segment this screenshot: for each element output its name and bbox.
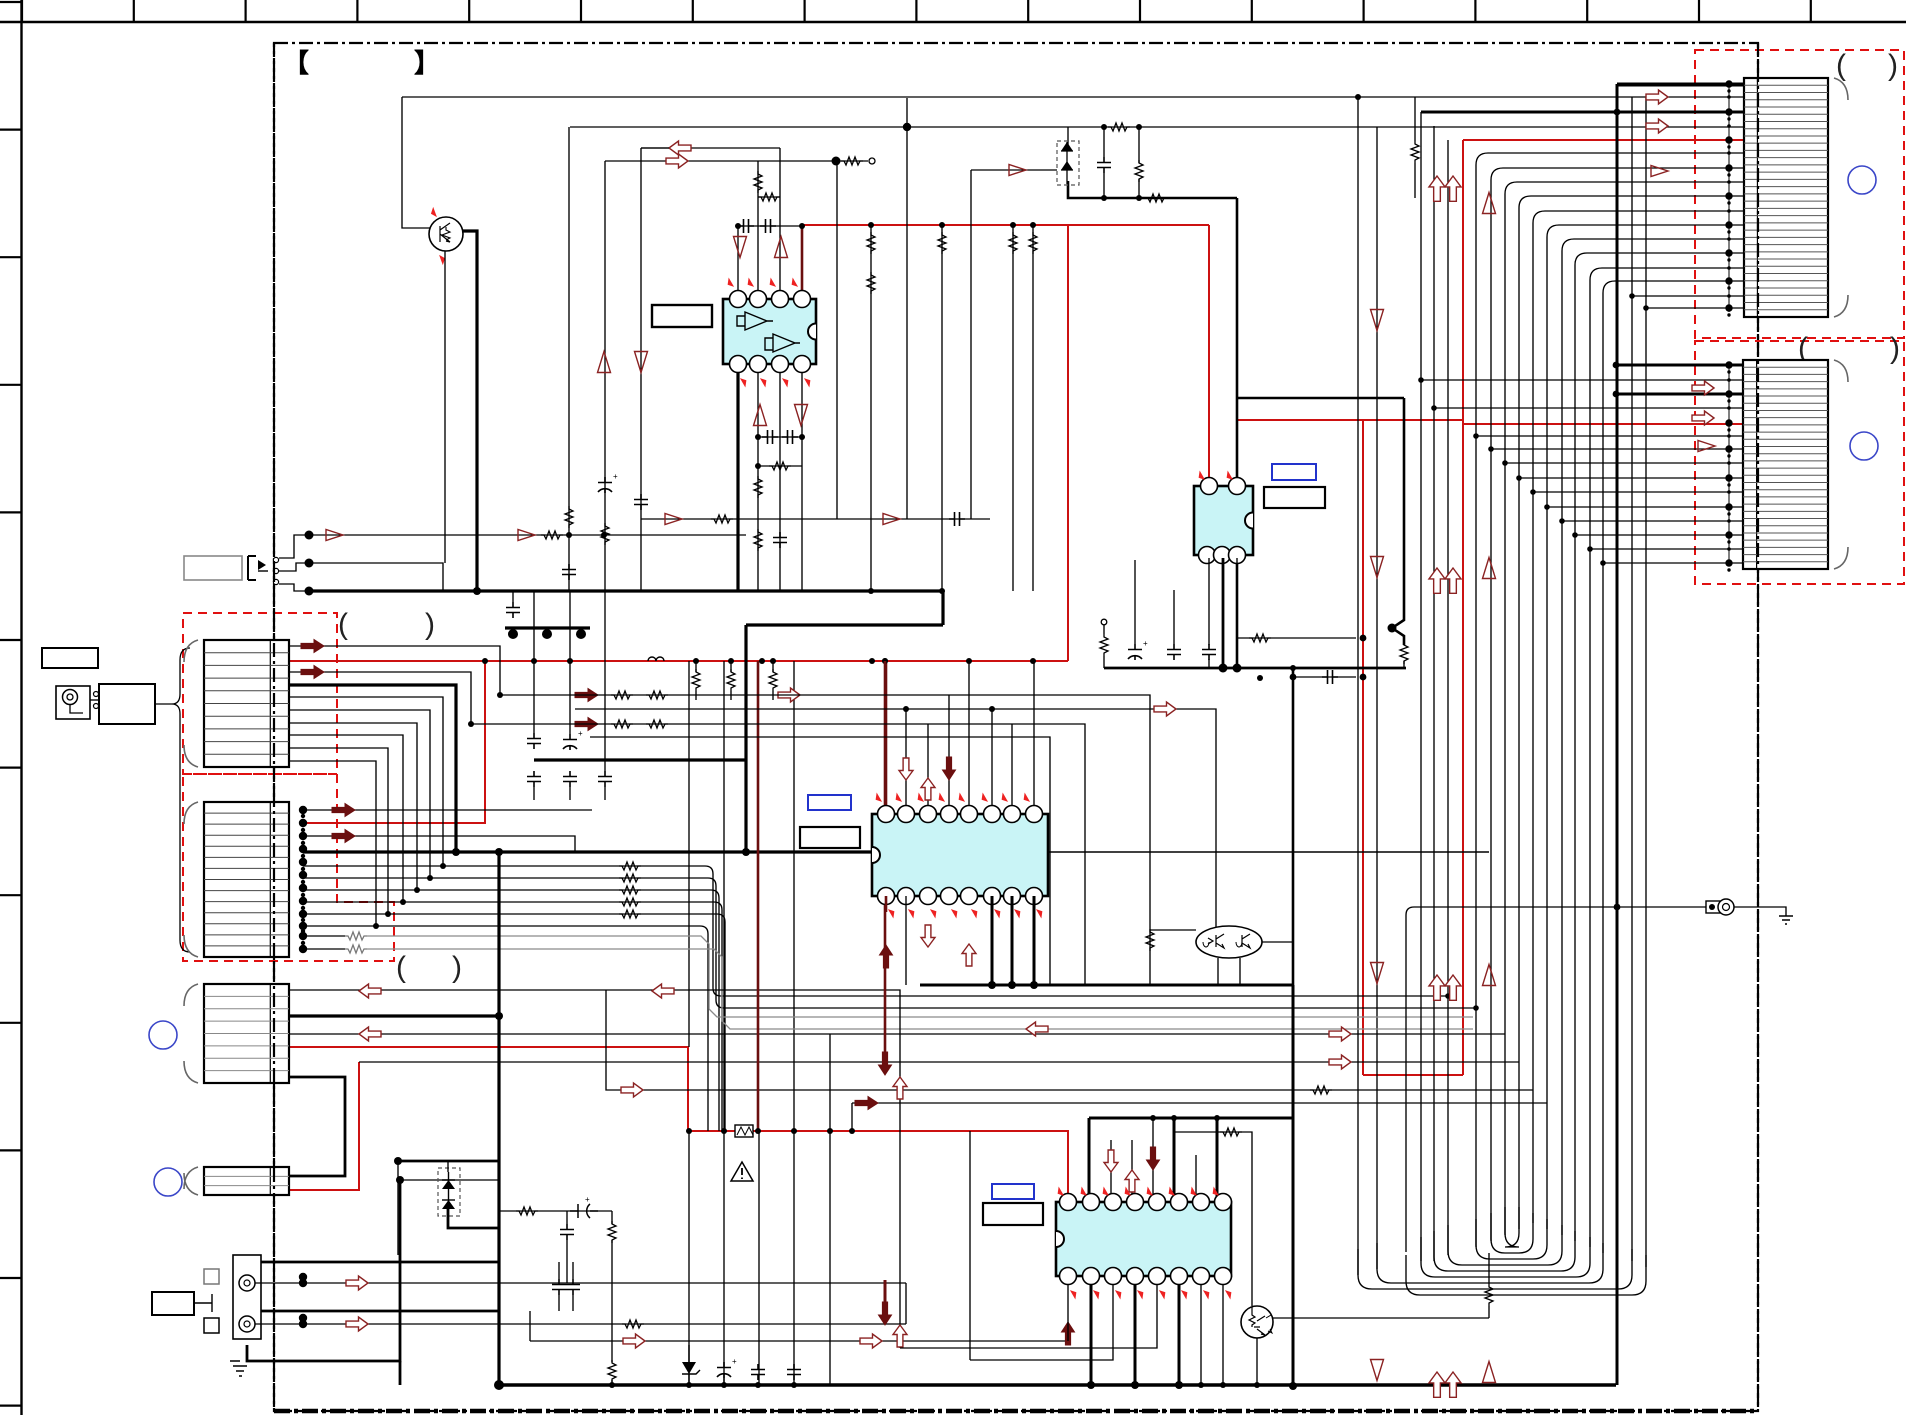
capacitor C25 <box>1322 670 1338 684</box>
resistor R1 <box>841 157 863 165</box>
resistor R9 <box>754 476 762 498</box>
ground GND1 <box>230 1345 247 1376</box>
wire net IC1 pin7 down <box>779 367 781 591</box>
resistor R34 <box>1310 1086 1332 1094</box>
wire net comb A row296 <box>1632 295 1744 297</box>
junction J85 <box>495 1012 503 1020</box>
wire net comb B row380 <box>1421 379 1744 381</box>
resistor R10 <box>754 529 762 551</box>
wire net caps y437 <box>758 436 802 438</box>
signal arrow A63 (triangle) <box>1009 165 1026 176</box>
fuse F1 <box>735 1125 753 1137</box>
label box IC4 <box>983 1203 1043 1225</box>
wire net IC3 p7 up <box>1011 724 1013 806</box>
wire net cap stub <box>1173 590 1175 644</box>
junction J150 <box>1727 406 1731 410</box>
signal arrow A60 (triangle) <box>1483 558 1496 579</box>
pin mark <box>1145 1188 1154 1196</box>
open terminal <box>869 158 875 164</box>
wire net x724 tail <box>723 1378 725 1385</box>
resistor R42 <box>1411 141 1419 163</box>
svg-text:+: + <box>613 472 618 481</box>
junction J158 <box>1727 483 1730 486</box>
wire net Q3 col stub <box>1488 1306 1490 1318</box>
junction J83 <box>609 1382 615 1388</box>
junction J23 <box>939 588 945 594</box>
signal arrow A7 (triangle) <box>598 352 611 373</box>
wire net RCA1 sig <box>255 1282 906 1284</box>
pin mark <box>887 909 896 917</box>
junction J161 <box>1727 512 1730 515</box>
junction J184 <box>1030 981 1038 989</box>
capacitor C13 (polarized) <box>563 734 577 750</box>
wire net x612 drop2 <box>611 1240 613 1362</box>
wire bus U-turn x1377-x1603 <box>1377 1243 1603 1283</box>
junction J36 <box>497 692 503 698</box>
wire net comb B row563 <box>1603 562 1744 564</box>
wire net y127 long <box>570 126 1744 128</box>
wire net bus row y878 <box>303 877 430 879</box>
wire net res x696 tail <box>695 691 697 700</box>
wire net x1013 col <box>1012 225 1014 591</box>
resistor R24 <box>611 720 633 728</box>
wire net IC1 pin8 down <box>801 367 803 591</box>
svg-text:): ) <box>1890 332 1900 365</box>
signal arrow A61 (triangle) <box>1483 965 1496 986</box>
junction (big) <box>832 157 841 166</box>
zener diode ZD1 <box>682 1345 700 1386</box>
wire net term drop <box>1103 625 1105 634</box>
wire net shield wire B <box>303 948 345 950</box>
signal arrow A68 <box>921 925 935 947</box>
signal arrow A62 (triangle) <box>1483 1362 1496 1383</box>
junction J89 <box>827 1128 833 1134</box>
junction J20 <box>1010 222 1016 228</box>
wire net x971 col <box>970 170 972 519</box>
junction J51 <box>299 845 307 853</box>
wire net term bus (thick) <box>1104 667 1406 670</box>
wire net res x696 stub <box>695 661 697 672</box>
wire net res y197 link <box>758 196 780 198</box>
junction J110 <box>1643 305 1649 311</box>
capacitor C18 <box>552 1279 566 1295</box>
wire net comb4 red link <box>289 1062 359 1190</box>
signal arrow A15 (solid) <box>301 666 324 679</box>
wire net c573 stub <box>572 1262 574 1279</box>
wire net IC4 pin8 riser (thick) <box>1216 1118 1219 1202</box>
wire net IC3 b7 dn (thick) <box>1011 896 1014 985</box>
capacitor C15 <box>563 771 577 787</box>
capacitor C19 <box>566 1279 580 1295</box>
wire net y161 res tail <box>836 160 868 162</box>
pin mark <box>957 794 966 802</box>
wire net x1404 tail <box>1403 661 1405 668</box>
wire net center col a <box>829 1034 831 1385</box>
capacitor (polarized) <box>570 1204 598 1218</box>
wire net y520 wire <box>641 518 990 520</box>
signal arrow A38 <box>1125 1170 1139 1192</box>
ring terminal <box>1706 899 1734 915</box>
junction J47 <box>1473 1005 1479 1011</box>
wire net y695 long <box>498 695 1150 896</box>
wire net comb B row y365 (thick) <box>1616 364 1744 367</box>
junction J108 <box>1614 109 1621 116</box>
wire net res x773 stub <box>772 661 774 672</box>
resistor R35 <box>622 1320 644 1328</box>
signal arrow A6 (triangle) <box>795 405 808 426</box>
signal arrow A52 <box>1445 975 1461 1000</box>
wire net Q2 top bus (thick) <box>1218 984 1293 987</box>
signal arrow A8 (triangle) <box>635 352 648 373</box>
wire net IC4 pin4 riser <box>1131 1140 1133 1202</box>
pin dot chain CN-A <box>1728 84 1730 312</box>
pin mark <box>1056 1188 1065 1196</box>
junction J169 <box>1488 446 1494 452</box>
wire net IC3 b8 dn (thick) <box>1033 896 1036 985</box>
signal arrow A19 (triangle) <box>518 530 535 541</box>
connector CN1 (10p) <box>184 640 289 767</box>
signal arrow A42 <box>1646 119 1668 133</box>
junction J154 <box>1725 445 1732 452</box>
wire net y1211 wire <box>499 1210 612 1212</box>
wire net opt y563 <box>309 563 443 591</box>
junction J90 <box>686 1128 692 1134</box>
wire net x534 low <box>533 787 535 800</box>
wire net res x731 stub <box>730 661 732 672</box>
resistor R6 <box>754 171 762 193</box>
signal arrow A9 (triangle) <box>665 514 682 525</box>
resistor R5 <box>1135 160 1143 182</box>
wire net x970 seg <box>969 1131 971 1360</box>
wire net IC4 pin b1 <box>1067 1276 1069 1341</box>
signal arrow A26 <box>621 1083 643 1097</box>
wire net red riser x1463 <box>1462 140 1464 1075</box>
resistor R13 <box>711 515 733 523</box>
pin mark <box>970 909 979 917</box>
shield box CN1 (red dashed) <box>183 613 337 774</box>
wire net Q1 emitter down <box>444 251 446 563</box>
wire net IC1 pin2 col <box>757 161 759 296</box>
wire net Q3 col riser <box>1488 1253 1490 1284</box>
pin mark <box>937 794 946 802</box>
op-amp/IC IC2 (regulator) <box>1194 478 1253 564</box>
wire net opt sig y535 <box>309 534 746 536</box>
signal arrow (solid up) <box>1062 1322 1075 1345</box>
junction J123 <box>1725 192 1732 199</box>
pin mark <box>759 378 768 386</box>
wire net Q3 collector <box>1273 1317 1489 1319</box>
wire net comb A row84 (thick) <box>1617 83 1744 86</box>
wire net comb B row y394 (thick) <box>1616 393 1744 396</box>
junction J126 <box>1725 221 1732 228</box>
signal arrow (gray pair) <box>1026 1022 1048 1036</box>
junction J134 <box>1727 294 1731 298</box>
resistor R44 <box>1485 1284 1493 1306</box>
wire net y1062 long <box>359 1061 1519 1063</box>
junction J3 <box>903 123 911 131</box>
junction J176 <box>1175 1381 1183 1389</box>
open pin <box>94 704 99 709</box>
wire net x907 col <box>906 98 908 519</box>
signal arrow A1 <box>669 141 691 155</box>
wire net Q2 b2 <box>1239 958 1241 985</box>
wire net IC3 p2 up <box>905 709 907 806</box>
wire net red combB row (red) <box>1463 423 1744 425</box>
signal arrow A27 (solid) <box>855 1097 878 1110</box>
wire net comb1 r6 <box>289 710 430 878</box>
signal arrow A43 (triangle) <box>1651 166 1668 177</box>
resistor R33 <box>541 531 563 539</box>
RCA small box <box>204 1318 219 1333</box>
junction J130 <box>1727 258 1730 261</box>
junction J12 <box>799 434 805 440</box>
frame tick marks top <box>22 0 1811 22</box>
resistor R27 <box>619 874 641 882</box>
bus column x1491 <box>1491 168 1744 1241</box>
comb group brace <box>172 648 190 952</box>
open pin <box>94 692 99 697</box>
capacitor C22 <box>787 1364 801 1380</box>
resistor R20 <box>727 669 735 691</box>
wire net shield wire A <box>303 935 345 937</box>
signal arrow A22 <box>359 1027 381 1041</box>
wire net opt out3 <box>279 584 309 591</box>
wire net RCA1 (thick) <box>261 1261 499 1264</box>
op-amp/IC IC3 (signal processor) <box>872 806 1048 905</box>
junction J93 <box>791 1128 797 1134</box>
signal arrow A48 <box>1445 176 1461 201</box>
signal arrow A10 (triangle) <box>883 514 900 525</box>
board outline left edge overlay (dash-dot) <box>273 43 275 1411</box>
junction J73 <box>305 587 314 596</box>
capacitor C2 <box>738 219 754 233</box>
wire corner <box>717 914 725 1131</box>
wire net red combA row (red) <box>1463 139 1744 141</box>
wire net VCC IC2 pin1 feed (red) <box>1208 225 1210 478</box>
junction J160 <box>1725 503 1732 510</box>
junction J162 <box>1727 519 1731 523</box>
junction J62 <box>301 841 305 845</box>
label box IC2 (blue) <box>1272 464 1316 480</box>
wire net res x773 tail <box>772 691 774 700</box>
junction J43 <box>385 911 391 917</box>
junction J50 <box>299 832 307 840</box>
junction J180 <box>1219 664 1228 673</box>
junction J98 <box>1289 1382 1297 1390</box>
pin mark <box>1022 794 1031 802</box>
junction J102 <box>1614 904 1621 911</box>
junction J179 <box>1360 635 1367 642</box>
junction J15 <box>508 629 518 639</box>
capacitor C26 <box>1202 644 1216 660</box>
svg-text:(: ( <box>396 951 406 984</box>
pin mark <box>980 794 989 802</box>
wire net IC4 pin b2 (thick) <box>1090 1276 1093 1385</box>
pin mark <box>1189 1188 1198 1196</box>
pin mark <box>790 279 799 287</box>
bus column x1533 <box>1533 211 1744 1223</box>
wire net x852 drop <box>851 1103 853 1131</box>
connector jack JK1 <box>56 686 90 719</box>
wire net x794 col <box>793 661 795 1385</box>
wire net thick y985 <box>920 984 1293 987</box>
wire net y148 arrow wire <box>641 147 780 149</box>
pin dot chain CN-B <box>1728 365 1730 565</box>
signal arrow A44 <box>1692 381 1714 395</box>
pin mark <box>1069 1290 1078 1298</box>
wire net y148 to x641 <box>641 147 669 149</box>
junction J119 <box>1727 151 1731 155</box>
transistor Q3 <box>1241 1306 1273 1338</box>
wire net block to combs <box>155 703 172 705</box>
junction J164 <box>1727 540 1730 543</box>
wire net x724 col <box>723 661 725 1385</box>
capacitor C5 <box>782 430 798 444</box>
wire net D2 bot (thick) <box>448 1208 499 1228</box>
wire net IC4 pin b8 <box>1222 1276 1224 1385</box>
pin mark <box>1211 1188 1220 1196</box>
junction J8 <box>1136 195 1142 201</box>
bus column x1575 <box>1575 253 1744 1241</box>
capacitor C12 <box>527 733 541 749</box>
connector CN4 (3p) <box>184 1167 289 1195</box>
wire net Q2 right <box>1262 941 1293 943</box>
connector CN4 ident circle <box>154 1168 182 1196</box>
junction J107 <box>1233 664 1242 673</box>
junction J167 <box>1727 568 1730 571</box>
wire net comb2 thick y852 <box>456 850 746 853</box>
junction J144 <box>1600 560 1606 566</box>
connector RCA block <box>233 1255 261 1339</box>
op-amp U1b <box>765 334 800 352</box>
board outline bottom (heavy dash-dot) <box>274 1409 1758 1414</box>
wire net res x1139 tail <box>1138 179 1140 198</box>
signal arrow A2 <box>666 154 688 168</box>
junction J27 <box>693 658 699 664</box>
wire net thick y1118 <box>1089 1117 1293 1120</box>
junction J39 <box>440 863 446 869</box>
wire net bottom bus (thick) <box>499 1383 1616 1387</box>
wire net comb B row521 <box>1562 520 1744 522</box>
wire net y161 wire <box>605 160 836 162</box>
wire net Q2 b1 <box>1217 958 1219 985</box>
signal arrow A37 <box>1104 1150 1118 1172</box>
pin mark <box>437 255 446 263</box>
signal arrow A31 <box>860 1334 882 1348</box>
junction J157 <box>1725 474 1732 481</box>
wire net IC2 pin b1 tail <box>1208 659 1210 668</box>
wire net x398 seg <box>397 1161 399 1255</box>
svg-text:): ) <box>1888 49 1898 82</box>
diode pair D2 <box>438 1168 460 1216</box>
wire net comb3 r4 <box>289 1033 1505 1035</box>
junction J72 <box>305 559 314 568</box>
junction J34 <box>989 706 995 712</box>
board outline right edge overlay (dash-dot) <box>1757 43 1759 1411</box>
junction J168 <box>1473 433 1479 439</box>
junction J125 <box>1727 209 1731 213</box>
wire bus U-turn x1434-x1575 <box>1434 1231 1575 1271</box>
wire net x871 col <box>870 225 872 591</box>
wire net comb A row308 <box>1646 307 1744 309</box>
resistor R28 <box>619 886 641 894</box>
svg-text:+: + <box>732 1357 737 1366</box>
junction J16 <box>542 629 552 639</box>
svg-text:): ) <box>452 951 462 984</box>
junction J25 <box>531 658 537 664</box>
wire net bus row y902 cont <box>403 901 714 903</box>
signal arrow A57 (triangle) <box>1371 963 1384 984</box>
junction J6 <box>1136 124 1142 130</box>
resistor R23 <box>646 691 668 699</box>
pin mark <box>1114 1290 1123 1298</box>
wire bus column x1434 <box>1433 126 1435 1261</box>
wire net IC4 pin5 riser <box>1152 1118 1154 1202</box>
wire corner <box>708 878 1476 1008</box>
wire net comb1 r4 (thick) <box>289 685 456 852</box>
wire net x612 tail <box>611 1380 613 1386</box>
junction J152 <box>1727 428 1730 431</box>
capacitor C20 (polarized) <box>717 1362 731 1378</box>
wire net comb B row408 <box>1434 407 1744 409</box>
junction J175 <box>1131 1381 1139 1389</box>
pin mark <box>874 794 883 802</box>
resistor R3 <box>1108 123 1130 131</box>
wire net IC3 p4 up <box>948 695 950 806</box>
connector CN3 (8p) <box>184 984 289 1083</box>
junction J5 <box>1101 124 1107 130</box>
junction J28 <box>728 658 734 664</box>
junction J111 <box>1725 80 1732 87</box>
shield box CN-A (red dashed) <box>1695 50 1904 338</box>
junction J153 <box>1727 434 1731 438</box>
wire net VCC-A riser (red) <box>1067 225 1069 661</box>
wire net IC4 pin b6 (thick) <box>1178 1276 1181 1385</box>
wire net x605 link <box>604 591 606 771</box>
capacitor C24 <box>1167 644 1181 660</box>
junction J19 <box>939 222 945 228</box>
junction J26 <box>567 658 573 664</box>
wire net comb4 black link (thick) <box>289 1077 345 1176</box>
capacitor C7 <box>562 564 576 580</box>
signal arrow A18 (triangle) <box>326 530 343 541</box>
junction J69 <box>301 929 305 933</box>
wire net bus row y866 cont <box>443 865 705 867</box>
junction J159 <box>1727 490 1731 494</box>
wire net comb1 r1 <box>289 646 500 695</box>
label box <box>152 1292 194 1315</box>
wire net IC3 b2 dn <box>905 896 907 985</box>
wire net x906 rca drop <box>905 1283 907 1324</box>
op-amp/IC IC4 (driver) <box>1056 1194 1232 1285</box>
wire net x837 col <box>836 161 838 519</box>
junction J75 <box>601 532 607 538</box>
junction J156 <box>1727 461 1731 465</box>
wire net x1358 branch <box>1357 97 1359 1275</box>
wire net IC1 pin6 down <box>757 367 759 591</box>
resistor R43 <box>1146 929 1154 951</box>
junction J185 <box>1254 1382 1260 1388</box>
junction J45 <box>742 848 750 856</box>
junction J49 <box>299 819 307 827</box>
wire net comb2 r10 cont <box>376 925 700 927</box>
junction J48 <box>299 806 307 814</box>
capacitor C1 <box>1097 157 1111 173</box>
signal arrow A21 <box>652 984 674 998</box>
wire ring feed <box>1406 907 1712 1252</box>
junction J18 <box>868 222 874 228</box>
wire net IC3 right col <box>1149 896 1151 985</box>
